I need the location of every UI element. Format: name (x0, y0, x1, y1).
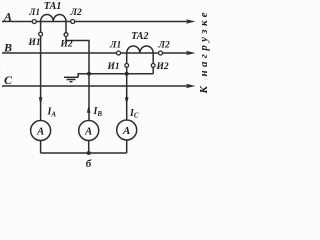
wire common line node to TA2 (89, 73, 153, 75)
svg-text:К нагрузке: К нагрузке (198, 9, 210, 94)
svg-text:Л1: Л1 (28, 7, 40, 17)
svg-text:и: и (0, 62, 1, 72)
terminal И2 of TA1 (64, 33, 68, 37)
ammeter PA1 (IA) (31, 121, 51, 141)
wire TA1.И1 to ammeter PA1 (40, 36, 42, 121)
wire TA2.И2 down to common line (152, 67, 154, 74)
svg-text:ТА1: ТА1 (44, 1, 62, 12)
wire ammeter PA1 bottom stub (40, 141, 42, 153)
svg-text:И1: И1 (107, 62, 120, 72)
node junction at ground tap (87, 72, 91, 76)
svg-text:А: А (122, 125, 130, 137)
svg-text:И1: И1 (28, 38, 41, 48)
terminal Л2 of TA1 (71, 20, 75, 24)
wire ammeter PA2 bottom stub (88, 141, 90, 153)
transformer TA1 primary winding arcs (41, 14, 66, 21)
terminal И1 of TA1 (39, 32, 43, 36)
svg-text:Л2: Л2 (158, 41, 171, 51)
arrow current IA down (39, 97, 43, 105)
arrow current IC down (125, 97, 129, 105)
wire TA1 И2 stub (65, 22, 67, 33)
svg-text:А: А (84, 126, 92, 138)
wire TA1 И1 stub (40, 22, 42, 33)
arrow phase C (186, 84, 196, 89)
wire phase C line (2, 85, 190, 87)
ammeter PA3 (IC) (117, 120, 137, 140)
svg-text:ТА2: ТА2 (131, 31, 148, 42)
ground (64, 76, 78, 78)
svg-text:IА: IА (47, 107, 57, 119)
node б junction (87, 151, 91, 155)
arrow phase A (186, 19, 196, 24)
wire TA2 И1 stub (126, 53, 128, 64)
wire ground branch (78, 74, 89, 78)
ammeter PA2 (IB) (79, 121, 99, 141)
node junction common/IC wire (125, 72, 129, 76)
terminal И2 of TA2 (151, 64, 155, 68)
wire TA1.И2 down-right-down to node (66, 36, 89, 120)
svg-text:И2: И2 (60, 40, 73, 50)
svg-text:С: С (4, 73, 13, 87)
svg-text:И2: И2 (156, 62, 169, 72)
svg-text:IС: IС (129, 108, 139, 120)
svg-text:А: А (3, 10, 12, 24)
transformer TA2 primary winding arcs (127, 46, 154, 53)
arrow current IB up (87, 105, 91, 113)
svg-text:Л2: Л2 (70, 8, 83, 18)
wire TA2.И1 down to ammeter PA3 (126, 67, 128, 120)
wire phase B line (2, 52, 190, 54)
terminal Л2 of TA2 (159, 51, 163, 55)
terminal Л1 of TA1 (32, 20, 36, 24)
svg-text:IВ: IВ (93, 106, 103, 118)
terminal Л1 of TA2 (117, 51, 121, 55)
svg-text:А: А (36, 126, 44, 138)
wire TA2 И2 stub (152, 53, 154, 64)
svg-text:б: б (86, 158, 92, 170)
wire bottom bus b (41, 152, 127, 154)
svg-text:Л1: Л1 (109, 41, 121, 51)
wire phase A line (2, 21, 190, 23)
svg-text:В: В (3, 40, 12, 54)
wire ammeter PA3 bottom stub (126, 140, 128, 153)
terminal И1 of TA2 (125, 64, 129, 68)
arrow phase B (186, 51, 196, 56)
